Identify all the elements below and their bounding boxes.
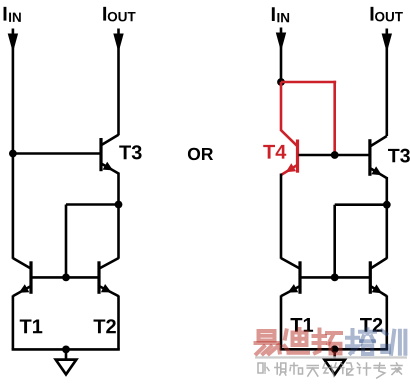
node: I_IN / T4 junction (right circuit) (277, 78, 285, 86)
wire T2 collector vertical (right circuit) (385, 205, 388, 259)
watermark tagline (gray chinese text) (258, 363, 402, 378)
wire T3 emitter down to node (right circuit) (385, 177, 388, 205)
node: base rail junction (right circuit) (331, 274, 339, 282)
transistor T2 (left circuit) (99, 258, 119, 296)
wire I_OUT output vertical (right circuit) (385, 29, 388, 137)
wire T1-T2 base rail (right circuit) (300, 276, 370, 279)
wire bottom emitter rail (left circuit) (12, 348, 120, 351)
wire red: T4 base feedback horizontal (281, 81, 336, 84)
label T3 (left circuit) (119, 145, 141, 159)
label I_OUT (left circuit) (103, 7, 135, 22)
wire I_OUT output vertical (left circuit) (117, 29, 120, 136)
node: base rail / red feedback junction (right circuit) (331, 151, 339, 159)
wire node to base-rail horizontal (right circuit) (335, 203, 387, 206)
node: I_IN to T3 base junction (left circuit) (9, 150, 17, 158)
label I_IN (left circuit) (4, 7, 21, 22)
wire red: T4 collector vertical (280, 82, 283, 131)
node: T3 emitter / T2 collector junction (left circuit) (115, 201, 123, 209)
current arrow on I_IN (right circuit) (276, 33, 286, 52)
wire node to base-rail horizontal (left circuit) (66, 203, 119, 206)
node: bottom rail ground junction (left circuit) (62, 346, 70, 354)
wire T3 base (left circuit) (13, 152, 101, 155)
current arrow on I_OUT (left circuit) (113, 34, 123, 53)
transistor T4 (right circuit) (281, 130, 298, 175)
wire I_IN input vertical (right circuit) (280, 28, 283, 83)
ground (right circuit) (324, 349, 345, 374)
label T3 (right circuit) (388, 149, 410, 163)
watermark underline rule (255, 356, 407, 358)
watermark char 4 (pei) (347, 329, 375, 354)
wire bottom emitter rail (right circuit) (280, 348, 388, 351)
node: base rail junction (left circuit) (62, 274, 70, 282)
wire node to base-rail vertical (left circuit) (65, 205, 68, 278)
watermark char 3 (tuo) (314, 330, 342, 354)
label T2 (right circuit) (360, 318, 382, 332)
wire T3 emitter down to node (left circuit) (117, 173, 120, 205)
transistor T3 (left circuit) (101, 135, 119, 174)
ground (left circuit) (56, 349, 77, 374)
watermark char 2 (di) (285, 329, 309, 353)
wire T2 collector vertical (left circuit) (117, 205, 120, 259)
wire T4 emitter down to T1 collector (right circuit) (280, 174, 283, 259)
label T4 (right circuit) (263, 145, 286, 159)
wire T1-T2 base rail (left circuit) (31, 276, 99, 279)
label T2 (left circuit) (94, 319, 116, 333)
label OR (188, 148, 213, 160)
label T1 (right circuit) (291, 318, 314, 332)
transistor T3 (right circuit) (370, 136, 387, 178)
node: T3 emitter / T2 collector junction (right circuit) (383, 201, 391, 209)
wire T2 emitter vertical (right circuit) (385, 296, 388, 350)
transistor T1 (right circuit) (281, 258, 300, 296)
wire T4 base to T3 base rail (right circuit) (299, 154, 370, 157)
wire I_IN input vertical (left circuit) (12, 29, 15, 259)
wire T1 emitter vertical (left circuit) (12, 296, 15, 350)
node: bottom rail ground junction (right circuit) (331, 345, 339, 353)
current arrow on I_OUT (right circuit) (382, 34, 392, 53)
label T1 (left circuit) (20, 319, 43, 333)
watermark char 1 (yi) (256, 331, 280, 354)
label I_OUT (right circuit) (371, 7, 403, 22)
transistor T1 (left circuit) (13, 258, 31, 296)
current arrow on I_IN (left circuit) (8, 34, 18, 53)
wire node to base-rail vertical (right circuit) (333, 205, 336, 278)
label I_IN (right circuit) (272, 7, 289, 22)
wire T2 emitter vertical (left circuit) (117, 296, 120, 350)
transistor T2 (right circuit) (370, 258, 387, 296)
watermark char 5 (xun) (380, 331, 405, 355)
wire red: T4 base feedback vertical (333, 81, 336, 155)
wire T1 emitter vertical (right circuit) (280, 296, 283, 350)
